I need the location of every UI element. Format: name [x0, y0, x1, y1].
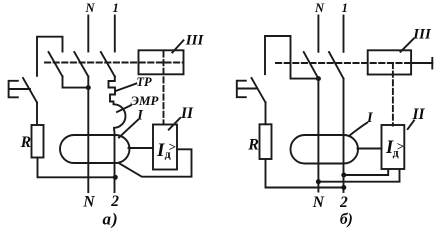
test contact blade	[23, 78, 37, 103]
relay box II (b)	[382, 125, 405, 169]
wire aux contact to N junction	[63, 77, 89, 88]
handle line right of III box	[411, 62, 432, 64]
wire 1 supply drop (b)	[343, 16, 345, 52]
svg-text:>: >	[397, 139, 404, 154]
junction dot rail to line 2 (b)	[341, 185, 346, 190]
wire bracket (test tap over poles)	[37, 37, 63, 76]
wire R to line-2 junction (bottom rail)	[38, 158, 116, 178]
svg-text:III: III	[412, 26, 432, 42]
contact blade 1-pole (b)	[329, 52, 344, 79]
resistor R (test)	[32, 125, 44, 158]
wire pole-1 with thermal release TP and electromagnetic release EMP	[109, 77, 126, 193]
svg-text:N: N	[85, 1, 96, 15]
mechanism box III (b)	[368, 50, 411, 74]
wire test contact to resistor (b)	[265, 103, 267, 125]
wire test contact to resistor	[36, 103, 38, 126]
resistor R (b)	[260, 124, 272, 159]
junction dot line2 upper (b)	[341, 173, 346, 178]
contact blade N-pole	[74, 52, 88, 77]
differential transformer oval (b)	[291, 135, 359, 164]
dashed vertical relay II to mechanism III (b)	[392, 63, 394, 126]
dashed vertical relay II to mechanism III	[163, 52, 165, 125]
svg-text:1: 1	[113, 1, 119, 15]
svg-text:R: R	[20, 134, 31, 151]
wire N pole down (b)	[317, 79, 319, 192]
pointer tick II (b)	[408, 121, 414, 130]
wire bracket test tap (b)	[265, 36, 318, 79]
junction dot on N line	[86, 85, 91, 90]
wire N supply drop (b)	[317, 16, 319, 52]
pointer tick TP	[116, 84, 136, 91]
mechanism box III	[139, 50, 184, 74]
svg-text:1: 1	[342, 1, 348, 15]
svg-text:а): а)	[103, 209, 119, 228]
svg-text:R: R	[247, 136, 259, 153]
pointer tick III (b)	[401, 39, 414, 52]
mechanical linkage dashed line	[45, 62, 183, 64]
svg-text:2: 2	[339, 194, 348, 211]
svg-text:ЭМР: ЭМР	[131, 93, 160, 108]
svg-text:>: >	[169, 139, 176, 154]
differential transformer oval (a)	[60, 135, 130, 163]
relay supply stub to line 2 (b)	[344, 170, 388, 176]
pointer tick I (curved)	[119, 120, 138, 138]
wire 1 supply drop	[114, 16, 116, 52]
svg-text:N: N	[314, 1, 325, 15]
junction dot N line (b)	[316, 179, 321, 184]
wire N supply drop	[87, 16, 89, 52]
contact blade 1-pole	[101, 52, 115, 77]
relay box II (Id>)	[153, 125, 177, 170]
svg-text:II: II	[180, 105, 194, 122]
contact blade auxiliary (test pole)	[49, 52, 63, 77]
secondary winding top lead	[129, 147, 154, 149]
pointer tick II	[169, 118, 180, 130]
contact blade N-pole (b)	[304, 52, 319, 79]
svg-text:III: III	[185, 32, 205, 48]
mechanical linkage dashed line (b)	[276, 62, 411, 64]
svg-text:б): б)	[340, 211, 353, 228]
secondary winding bottom lead looping to relay right side	[119, 149, 192, 176]
junction dot rail to line 2	[113, 175, 118, 180]
pointer tick I curved (b)	[349, 123, 367, 136]
secondary winding top lead (b)	[358, 148, 382, 150]
pointer tick EMP	[117, 105, 131, 112]
test contact blade (b)	[252, 78, 266, 103]
handle end bar	[431, 58, 433, 69]
wire R to line-2 bottom junction (b)	[266, 159, 344, 188]
junction dot bracket to N (b)	[316, 76, 321, 81]
svg-text:2: 2	[110, 193, 119, 210]
test button symbol (b)	[237, 81, 257, 98]
test button symbol	[9, 81, 30, 98]
svg-text:ТР: ТР	[136, 75, 152, 89]
relay supply stub to N line (b)	[318, 170, 399, 182]
wire N pole down to terminal	[87, 77, 89, 193]
svg-text:N: N	[82, 193, 95, 210]
svg-text:N: N	[312, 194, 325, 211]
wire pole 1 down (b)	[343, 79, 345, 192]
pointer tick III	[172, 40, 183, 52]
